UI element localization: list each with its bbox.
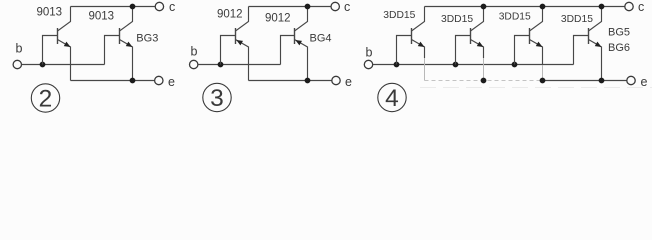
terminal b (circuit 4)	[364, 60, 372, 68]
circled number 3	[203, 83, 231, 112]
svg-text:3: 3	[210, 85, 224, 112]
terminal e (circuit 3)	[332, 76, 340, 84]
terminal c (circuit 4)	[625, 2, 633, 10]
circled number 2	[31, 84, 59, 113]
node: base junction Q5	[394, 62, 400, 68]
wire: base lead Q4	[281, 36, 295, 65]
terminal b (circuit 2)	[13, 60, 21, 68]
wire: faded emitter lead Q7	[542, 65, 544, 81]
(faint scan artifact line)	[420, 87, 652, 89]
wire: b bus	[373, 64, 574, 66]
svg-text:b: b	[366, 46, 373, 60]
wire: emitter bus to e	[249, 80, 332, 82]
node: collector junction Q2	[130, 4, 136, 10]
wire: faded emitter lead Q6	[483, 58, 485, 81]
node: collector junction Q7	[540, 4, 546, 10]
wire: emitter bus to e	[71, 80, 155, 82]
svg-text:e: e	[168, 75, 175, 89]
svg-text:9013: 9013	[37, 7, 63, 19]
wire: base lead Q1	[43, 36, 58, 65]
svg-text:b: b	[191, 44, 198, 58]
terminal c (circuit 3)	[331, 2, 339, 10]
node: emitter junction Q7	[540, 78, 546, 84]
transistor Q7 3DD15	[530, 7, 543, 66]
transistor Q8 3DD15	[589, 7, 602, 81]
wire: collector bus to c	[249, 6, 332, 8]
svg-text:2: 2	[39, 86, 53, 113]
transistor Q3 9012	[236, 7, 249, 81]
terminal e (circuit 4)	[627, 76, 635, 84]
svg-text:c: c	[638, 0, 644, 14]
wire: base lead Q8	[574, 36, 589, 65]
svg-text:BG4: BG4	[310, 33, 332, 45]
svg-text:BG5: BG5	[608, 26, 630, 38]
wire: b bus	[198, 64, 281, 66]
wire: faded emitter lead Q5	[424, 58, 426, 81]
node: emitter junction Q6	[481, 78, 487, 84]
node: base junction Q1	[40, 62, 46, 68]
wire: base lead Q7	[515, 36, 530, 65]
svg-text:c: c	[169, 0, 175, 14]
svg-text:BG3: BG3	[136, 33, 158, 45]
transistor Q1 9013	[58, 7, 71, 81]
svg-text:3DD15: 3DD15	[499, 12, 531, 23]
svg-text:3DD15: 3DD15	[561, 14, 593, 25]
wire: emitter bus to e	[544, 80, 627, 82]
svg-text:4: 4	[385, 85, 399, 112]
svg-text:3DD15: 3DD15	[441, 14, 473, 25]
node: collector junction Q4	[305, 4, 311, 10]
wire: b bus	[22, 64, 105, 66]
svg-text:BG6: BG6	[608, 42, 630, 54]
transistor Q4 9012	[295, 7, 308, 81]
transistor Q5 3DD15	[412, 7, 425, 59]
node: emitter junction Q2	[130, 78, 136, 84]
svg-text:b: b	[16, 42, 23, 56]
transistor Q6 3DD15	[471, 7, 484, 59]
node: base junction Q3	[218, 62, 224, 68]
wire: collector bus to c	[71, 6, 156, 8]
node: emitter junction Q4	[305, 78, 311, 84]
terminal b (circuit 3)	[190, 60, 198, 68]
svg-text:e: e	[345, 75, 352, 89]
wire: base lead Q5	[397, 36, 412, 65]
node: base junction Q7	[512, 62, 518, 68]
terminal e (circuit 2)	[155, 76, 163, 84]
node: collector junction Q8	[599, 4, 605, 10]
terminal c (circuit 2)	[155, 2, 163, 10]
wire: emitter bus (faded segment)	[425, 80, 545, 82]
svg-text:9012: 9012	[217, 8, 243, 20]
svg-text:9013: 9013	[89, 11, 115, 23]
svg-text:3DD15: 3DD15	[383, 10, 415, 21]
node: base junction Q6	[453, 62, 459, 68]
wire: base lead Q6	[456, 36, 471, 65]
circled number 4	[378, 83, 406, 112]
svg-text:e: e	[641, 75, 648, 89]
node: emitter junction Q8	[599, 78, 605, 84]
wire: base lead Q3	[221, 36, 236, 65]
svg-text:9012: 9012	[265, 13, 291, 25]
wire: base lead Q2	[105, 36, 120, 65]
svg-text:c: c	[344, 0, 350, 14]
node: collector junction Q6	[481, 4, 487, 10]
transistor Q2 9013	[120, 7, 133, 81]
wire: collector bus to c	[425, 6, 626, 8]
